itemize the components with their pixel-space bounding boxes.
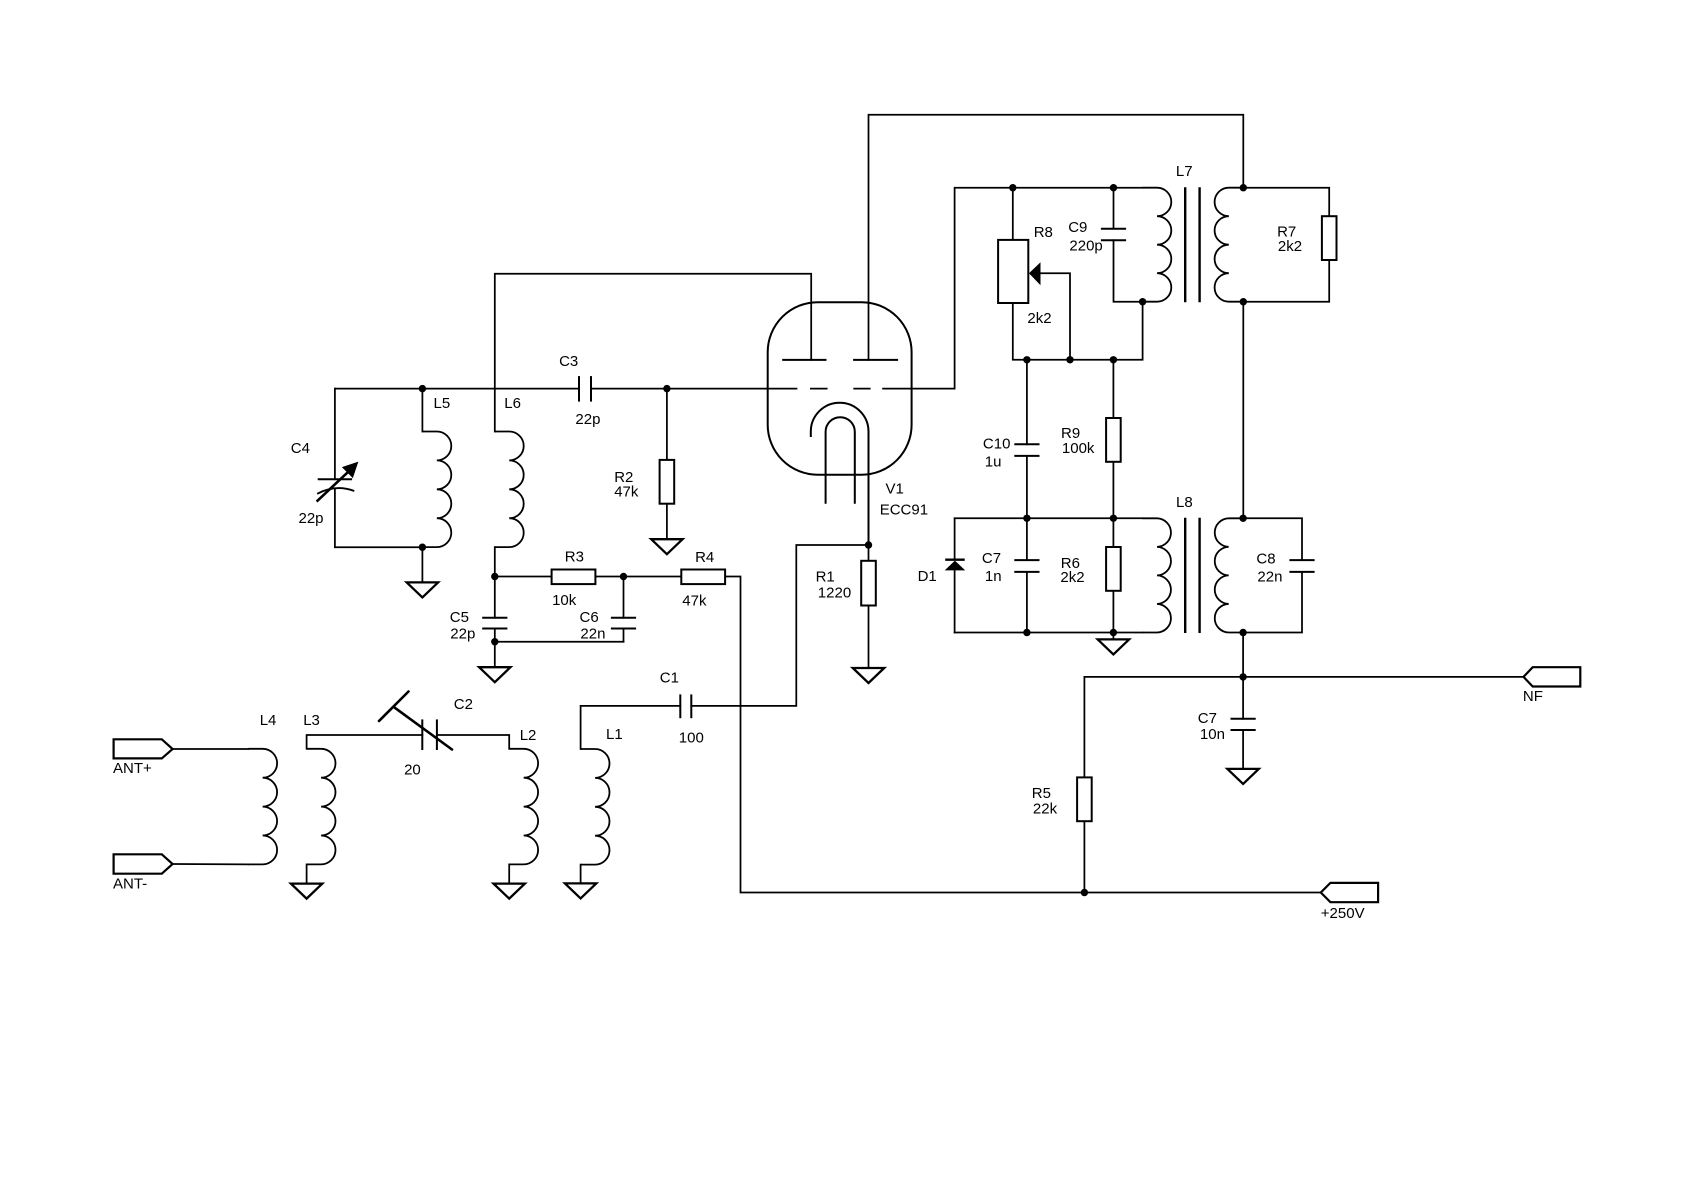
inductor L3 <box>307 749 336 865</box>
svg-text:L7: L7 <box>1176 163 1193 180</box>
tube V1 heater <box>826 417 855 504</box>
svg-text:2k2: 2k2 <box>1060 569 1084 586</box>
svg-text:R8: R8 <box>1034 224 1053 241</box>
node L5 bottom <box>419 544 426 551</box>
wire C9 bottom <box>1114 240 1143 301</box>
svg-text:22n: 22n <box>580 625 605 642</box>
svg-text:C10: C10 <box>983 436 1011 453</box>
potentiometer R8 body <box>998 240 1028 303</box>
transformer L8 core <box>1184 518 1186 633</box>
connector ANT- <box>114 854 173 873</box>
ground C7 10n <box>1227 769 1258 784</box>
resistor R7 2k2 <box>1322 216 1337 260</box>
node C5 C6 ground <box>491 638 498 645</box>
capacitor C6 22n plates <box>611 617 636 619</box>
ground L2 <box>494 884 525 899</box>
wire C9 top <box>1113 188 1115 229</box>
node bus R9 <box>1110 356 1117 363</box>
wire C5 top <box>494 577 496 618</box>
ground L3 <box>291 884 322 899</box>
wire L6 to R3 <box>495 576 552 578</box>
inductor L4 <box>248 749 277 865</box>
svg-text:+250V: +250V <box>1321 905 1365 922</box>
inductor L2 <box>509 749 538 865</box>
svg-text:R3: R3 <box>565 549 584 566</box>
capacitor C9 220p plates <box>1101 228 1126 230</box>
svg-text:ECC91: ECC91 <box>880 502 928 519</box>
tube V1 cathode <box>811 403 869 545</box>
connector ANT+ <box>114 739 173 758</box>
node C10 bottom <box>1023 515 1030 522</box>
svg-text:220p: 220p <box>1069 237 1102 254</box>
wire C10 bottom <box>1026 456 1028 518</box>
wire L3 top to C2 <box>307 735 423 749</box>
node R5 rail <box>1081 889 1088 896</box>
wire R6 bottom <box>1112 591 1114 633</box>
tube V1 ECC91 envelope <box>768 302 912 475</box>
wire C3 to tube grid <box>591 388 797 390</box>
node L7 secondary top <box>1240 184 1247 191</box>
svg-text:C8: C8 <box>1256 551 1275 568</box>
wire grid dash 1 <box>811 388 827 390</box>
wire L1 ground stub <box>580 865 582 884</box>
svg-text:L2: L2 <box>520 727 537 744</box>
node bus wiper <box>1066 356 1073 363</box>
wire R4 to +250V rail <box>725 577 1321 893</box>
node R6 ground <box>1110 629 1117 636</box>
node L5 top <box>419 385 426 392</box>
wire L7 to L8 link <box>1242 302 1244 519</box>
wire cathode to C1 <box>691 545 868 706</box>
ground R6 <box>1098 639 1129 654</box>
svg-text:L8: L8 <box>1176 494 1193 511</box>
capacitor C8 22n plates <box>1289 559 1314 561</box>
svg-text:100k: 100k <box>1062 440 1095 457</box>
wire bus corner to L7 primary bottom <box>1113 302 1142 360</box>
wire R9 bottom <box>1112 462 1114 519</box>
wire L5 ground stub <box>421 547 423 582</box>
svg-text:1n: 1n <box>985 568 1002 585</box>
inductor L1 <box>581 749 610 865</box>
wire C6 top <box>623 577 625 618</box>
wire R9 top <box>1112 360 1114 418</box>
wire C1 left to L1 <box>581 706 681 749</box>
svg-text:10k: 10k <box>552 592 577 609</box>
wire L3 ground stub <box>306 864 308 883</box>
resistor R4 47k <box>681 570 725 585</box>
wire detector top line <box>955 517 1143 519</box>
ground C5 C6 <box>479 667 510 682</box>
node R9 bottom <box>1110 515 1117 522</box>
wire right anode top rail <box>869 115 1244 360</box>
resistor R9 100k <box>1106 418 1121 462</box>
ground R2 <box>651 539 682 554</box>
node L8 secondary bottom <box>1239 629 1246 636</box>
svg-text:C4: C4 <box>291 440 310 457</box>
svg-text:L6: L6 <box>504 395 521 412</box>
wire C8 loop bottom <box>1243 572 1302 633</box>
wire R8 top <box>1012 188 1014 240</box>
variable capacitor C4 <box>317 462 358 501</box>
inductor L5 <box>422 432 451 548</box>
wire detector bottom line <box>955 632 1143 634</box>
wire C7 1n bottom <box>1026 572 1028 633</box>
wire C6 bottom <box>623 629 625 642</box>
wire C5-C6 bottom link <box>495 641 624 643</box>
svg-text:C9: C9 <box>1068 219 1087 236</box>
svg-text:2k2: 2k2 <box>1027 310 1051 327</box>
svg-text:ANT+: ANT+ <box>113 760 152 777</box>
wire C5 ground stub <box>494 642 496 668</box>
svg-text:22n: 22n <box>1257 568 1282 585</box>
svg-text:C6: C6 <box>580 609 599 626</box>
svg-text:47k: 47k <box>682 592 707 609</box>
resistor R1 1220 <box>861 561 876 606</box>
connector NF <box>1524 667 1581 686</box>
wire D1 top <box>954 518 956 559</box>
svg-text:R4: R4 <box>695 549 714 566</box>
node L7 primary bottom <box>1139 298 1146 305</box>
transformer L7 primary winding <box>1143 188 1172 302</box>
wire L2 ground stub <box>508 864 510 883</box>
wire ANT+ to L4 <box>173 748 249 750</box>
wire C7 10n top <box>1242 677 1244 719</box>
node L6 R3 <box>491 573 498 580</box>
wire R6 top <box>1112 518 1114 547</box>
svg-text:22p: 22p <box>575 411 600 428</box>
wire R2 top <box>666 389 668 460</box>
transformer L8 primary winding <box>1143 518 1171 632</box>
svg-text:L3: L3 <box>303 712 320 729</box>
wire R2 bottom <box>666 504 668 540</box>
resistor R5 22k <box>1077 777 1092 821</box>
svg-text:C3: C3 <box>559 353 578 370</box>
capacitor C1 100 plates <box>679 694 681 718</box>
ground L5 <box>407 582 438 597</box>
svg-text:22p: 22p <box>299 510 324 527</box>
wire R7 loop <box>1243 188 1329 217</box>
resistor R6 2k2 <box>1106 547 1121 591</box>
wire R5 top <box>1083 677 1085 778</box>
wire C5 bottom <box>494 629 496 642</box>
capacitor C7 1n plates <box>1014 559 1039 561</box>
svg-text:NF: NF <box>1523 688 1543 705</box>
wire C2 to L2 top <box>437 735 509 749</box>
node C9 top <box>1110 184 1117 191</box>
inductor L6 <box>495 432 524 548</box>
wire L6 bottom stub <box>494 547 496 576</box>
svg-text:L1: L1 <box>606 726 623 743</box>
svg-text:R1: R1 <box>816 569 835 586</box>
resistor R2 47k <box>660 460 675 504</box>
node R8 top <box>1009 184 1016 191</box>
svg-text:1220: 1220 <box>818 585 851 602</box>
capacitor C7 10n plates <box>1231 718 1256 720</box>
wire grid dash 2 <box>854 388 870 390</box>
wire C4 bottom lead <box>334 489 336 548</box>
svg-text:V1: V1 <box>886 480 904 497</box>
node C7 1n bottom <box>1023 629 1030 636</box>
trimmer C2 plates <box>421 719 423 750</box>
wire C7 10n bottom <box>1242 730 1244 769</box>
tube V1 anode plates <box>782 359 898 361</box>
svg-text:47k: 47k <box>614 483 639 500</box>
wire L8 sec to NF node <box>1242 633 1244 677</box>
node L7 secondary bottom <box>1240 298 1247 305</box>
svg-text:10n: 10n <box>1200 726 1225 743</box>
wire C4 top <box>334 389 336 480</box>
ground R1 <box>853 668 884 683</box>
wire R7 bottom <box>1243 260 1329 302</box>
wire L5 top stub <box>421 389 423 432</box>
wire C7 1n top <box>1026 518 1028 560</box>
svg-text:22p: 22p <box>450 625 475 642</box>
diode D1 <box>945 560 966 571</box>
wire D1 bottom <box>954 570 956 632</box>
wire R8 wiper <box>1041 273 1071 360</box>
svg-text:L4: L4 <box>260 712 277 729</box>
wire C8 loop top <box>1243 518 1302 560</box>
wire C4 bottom to L5 <box>335 546 423 548</box>
node R3 R4 C6 <box>620 573 627 580</box>
trimmer C2 adjust line <box>379 692 452 750</box>
wire R8 bottom bus <box>1013 303 1114 360</box>
wire R3 to node <box>595 576 623 578</box>
resistor R3 10k <box>552 570 596 585</box>
wire ANT- to L4 <box>173 863 249 865</box>
svg-text:100: 100 <box>679 729 704 746</box>
svg-text:1u: 1u <box>985 453 1002 470</box>
capacitor C5 22p plates <box>482 617 507 619</box>
capacitor C3 22p plates <box>578 376 580 402</box>
wire node to R4 <box>624 576 682 578</box>
node NF <box>1239 673 1246 680</box>
node cathode R1 <box>865 541 872 548</box>
ground L1 <box>565 883 596 898</box>
node C3 R2 <box>663 385 670 392</box>
node bus C10 <box>1023 356 1030 363</box>
svg-text:C7: C7 <box>1198 710 1217 727</box>
svg-text:22k: 22k <box>1033 800 1058 817</box>
svg-text:C2: C2 <box>454 696 473 713</box>
wire R6 ground stub <box>1112 633 1114 640</box>
node L8 secondary top <box>1239 515 1246 522</box>
wire grid right exit <box>883 188 1143 389</box>
wire R1 bottom <box>868 606 870 669</box>
connector +250V <box>1321 883 1378 902</box>
wire C10 top <box>1026 360 1028 445</box>
wire left anode to L6 <box>495 274 811 432</box>
potentiometer R8 wiper arrow <box>1029 262 1041 285</box>
svg-text:20: 20 <box>404 761 421 778</box>
svg-text:C1: C1 <box>660 670 679 687</box>
wire main grid rail y=388.6 <box>335 388 579 390</box>
transformer L8 secondary winding <box>1215 518 1243 632</box>
capacitor C10 1u plates <box>1014 443 1039 445</box>
svg-text:ANT-: ANT- <box>113 875 147 892</box>
wire R1 top <box>868 545 870 561</box>
svg-text:D1: D1 <box>918 568 937 585</box>
wire R5 bottom <box>1083 821 1085 892</box>
transformer L7 secondary winding <box>1215 188 1244 302</box>
svg-text:L5: L5 <box>434 395 451 412</box>
transformer L7 core <box>1184 187 1186 302</box>
svg-text:2k2: 2k2 <box>1278 238 1302 255</box>
svg-text:C5: C5 <box>450 609 469 626</box>
wire NF line <box>1084 676 1523 678</box>
svg-text:C7: C7 <box>982 550 1001 567</box>
